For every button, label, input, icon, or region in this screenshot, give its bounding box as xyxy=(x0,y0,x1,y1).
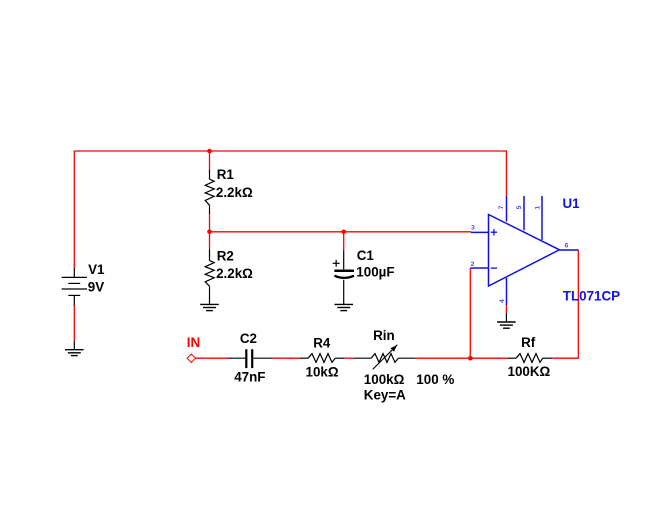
svg-text:2: 2 xyxy=(471,261,475,268)
svg-text:Key=A: Key=A xyxy=(364,388,406,403)
svg-text:4: 4 xyxy=(499,299,506,303)
svg-text:2.2kΩ: 2.2kΩ xyxy=(216,266,253,281)
svg-text:R1: R1 xyxy=(217,167,235,182)
svg-text:R2: R2 xyxy=(217,248,234,263)
svg-text:100KΩ: 100KΩ xyxy=(508,364,551,379)
svg-text:C2: C2 xyxy=(240,331,257,346)
svg-text:Rin: Rin xyxy=(373,328,395,343)
svg-text:6: 6 xyxy=(565,243,569,250)
svg-text:TL071CP: TL071CP xyxy=(563,289,620,304)
svg-text:100kΩ: 100kΩ xyxy=(364,372,405,387)
svg-text:100µF: 100µF xyxy=(356,264,394,279)
svg-text:47nF: 47nF xyxy=(234,370,265,385)
svg-text:U1: U1 xyxy=(563,196,581,211)
svg-text:1: 1 xyxy=(535,206,542,210)
svg-text:IN: IN xyxy=(187,335,200,350)
svg-text:2.2kΩ: 2.2kΩ xyxy=(216,185,253,200)
svg-text:3: 3 xyxy=(471,225,475,232)
svg-text:R4: R4 xyxy=(313,336,331,351)
svg-text:7: 7 xyxy=(498,205,505,209)
svg-text:Rf: Rf xyxy=(521,335,536,350)
svg-text:9V: 9V xyxy=(88,280,104,295)
svg-text:5: 5 xyxy=(516,205,523,209)
svg-text:10kΩ: 10kΩ xyxy=(306,365,339,380)
svg-text:V1: V1 xyxy=(88,262,105,277)
svg-text:C1: C1 xyxy=(357,248,375,263)
svg-text:100 %: 100 % xyxy=(416,372,454,387)
